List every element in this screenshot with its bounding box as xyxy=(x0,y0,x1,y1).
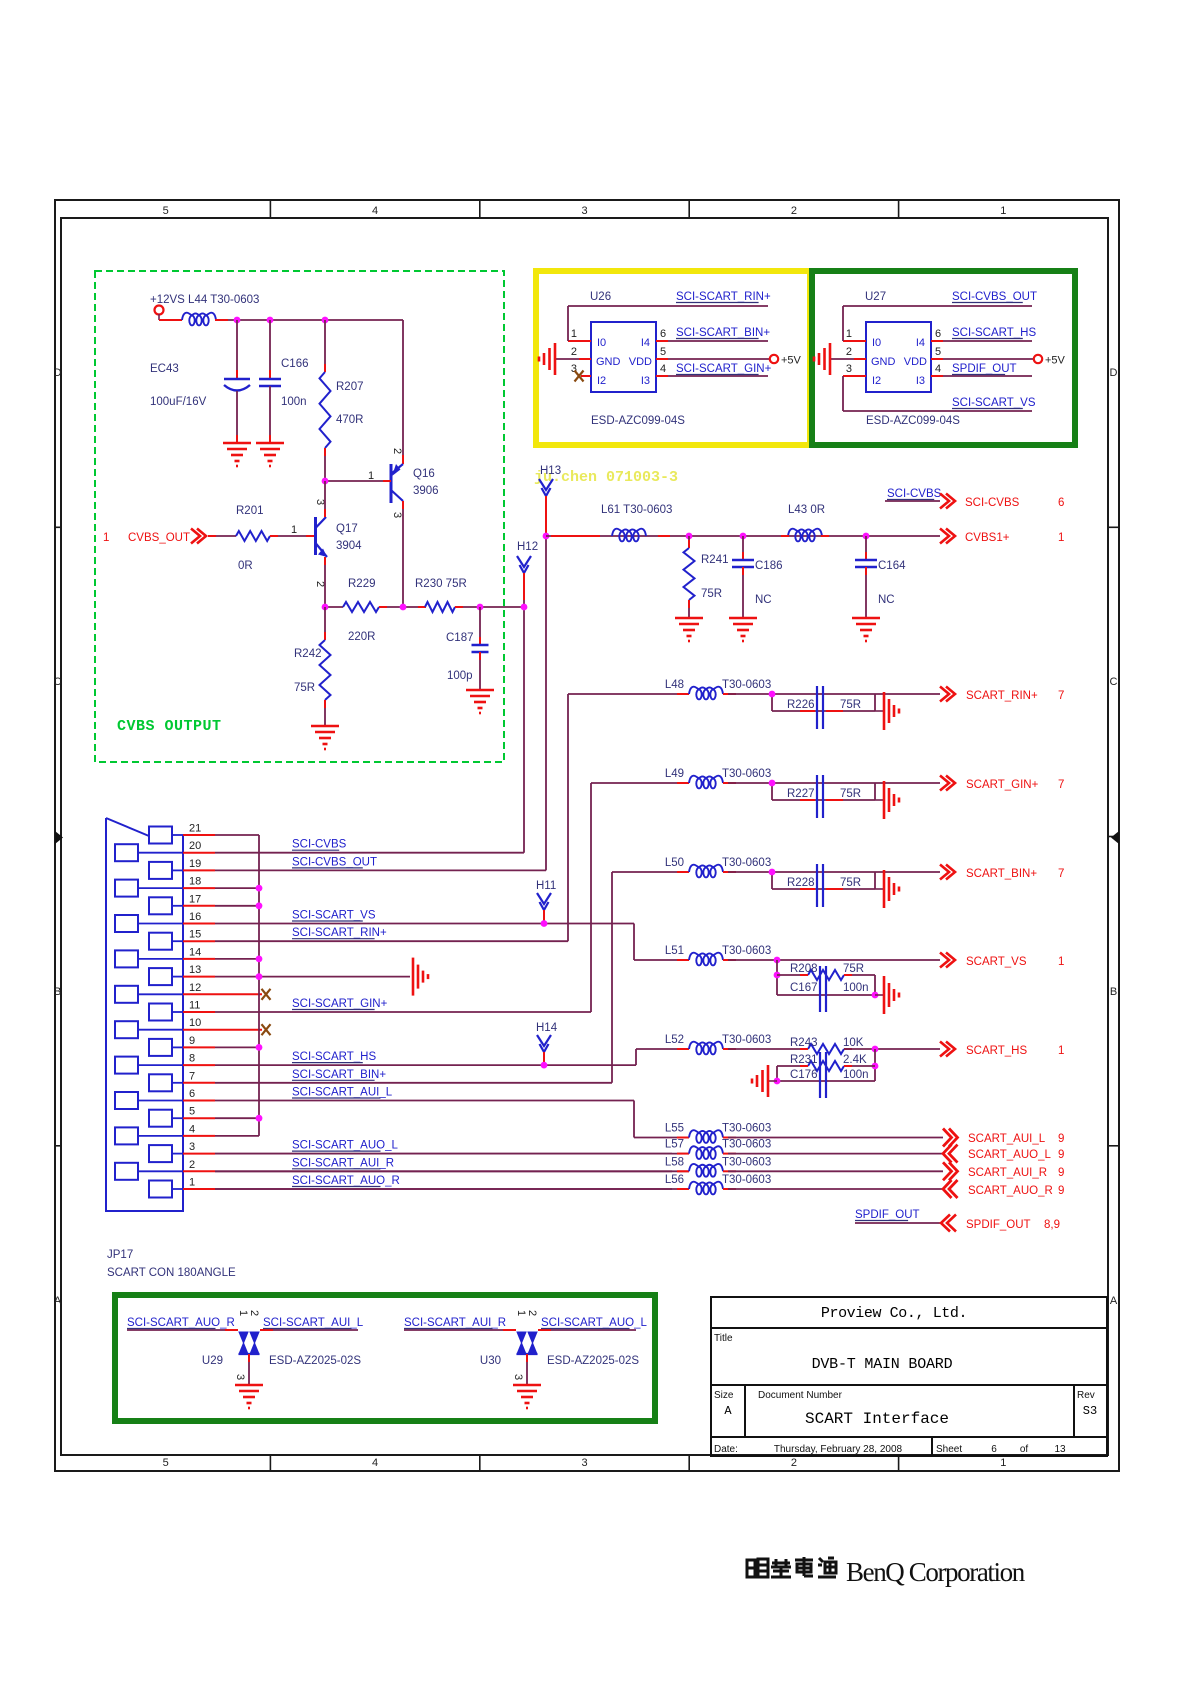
wire L55 row lead-in xyxy=(634,1137,689,1139)
wire L49 row lead-in xyxy=(591,782,689,784)
svg-text:100uF/16V: 100uF/16V xyxy=(150,396,207,408)
output port SCART_GIN+ xyxy=(940,776,955,791)
svg-text:3: 3 xyxy=(189,1141,195,1153)
svg-text:SCART_AUO_L: SCART_AUO_L xyxy=(968,1149,1051,1161)
svg-text:+5V: +5V xyxy=(781,355,802,367)
svg-text:75R: 75R xyxy=(843,963,864,975)
svg-text:3: 3 xyxy=(234,1374,246,1380)
svg-text:SCI-SCART_AUO_R: SCI-SCART_AUO_R xyxy=(292,1175,400,1187)
wire SCI-SCART_AUI_R xyxy=(404,1329,516,1331)
svg-text:L43 0R: L43 0R xyxy=(788,504,825,516)
svg-text:C167: C167 xyxy=(790,982,818,994)
svg-text:6: 6 xyxy=(991,1444,997,1455)
resistor R208 75R xyxy=(776,960,778,995)
svg-text:75R: 75R xyxy=(840,877,861,889)
svg-text:T30-0603: T30-0603 xyxy=(722,857,771,869)
svg-text:S3: S3 xyxy=(1083,1404,1097,1418)
ground at R226 network xyxy=(875,710,884,712)
output port SCART_AUO_L xyxy=(943,1145,958,1163)
svg-text:3906: 3906 xyxy=(413,485,439,497)
capacitor EC43 100uF/16V xyxy=(236,320,238,378)
green highlight box U27 xyxy=(812,271,1075,445)
wire SCI-SCART_AUO_R xyxy=(127,1329,238,1331)
resistor R226 75R network xyxy=(771,694,773,711)
svg-text:U30: U30 xyxy=(480,1355,501,1367)
svg-text:L49: L49 xyxy=(665,768,684,780)
node L61-R241 xyxy=(686,533,693,540)
output port SCART_HS xyxy=(940,1042,955,1057)
frame column/row ticks xyxy=(55,200,1119,1471)
svg-text:SCI-SCART_RIN+: SCI-SCART_RIN+ xyxy=(292,927,387,939)
svg-text:SCI-CVBS: SCI-CVBS xyxy=(887,488,942,500)
diode U30 ESD-AZ2025-02S xyxy=(517,1332,526,1354)
wire L51 row lead-in xyxy=(634,959,689,961)
wire L57 row to port xyxy=(728,1153,943,1155)
wire SCI-SCART_AUI_L xyxy=(260,1329,358,1331)
connector JP17 pin 14 box xyxy=(115,950,138,967)
svg-text:C: C xyxy=(54,676,62,688)
ground at L52 network xyxy=(768,1080,777,1082)
connector JP17 pin 7 box xyxy=(149,1074,172,1091)
connector JP17 pin 20 stub xyxy=(183,852,215,854)
wire L50 row lead-in xyxy=(612,871,689,873)
wire pin17 to ground bus xyxy=(215,905,259,907)
yellow highlight box U26 xyxy=(536,271,810,445)
svg-text:4: 4 xyxy=(372,1457,378,1469)
node rail-R207 xyxy=(322,317,329,324)
ground below C186 xyxy=(729,618,757,641)
U26 pin 3 no-connect xyxy=(581,375,591,377)
svg-text:SCI-SCART_VS: SCI-SCART_VS xyxy=(292,910,376,922)
wire L57 row lead-in xyxy=(215,1153,689,1155)
node H11 on pin16 wire xyxy=(541,920,548,927)
connector JP17 pin 5 box xyxy=(149,1110,172,1127)
U27 pin 6 wire SCI-SCART_HS xyxy=(931,340,943,342)
svg-text:6: 6 xyxy=(189,1088,195,1100)
svg-text:1: 1 xyxy=(571,328,577,340)
resistor R243 10K xyxy=(808,1044,844,1054)
svg-text:L57: L57 xyxy=(665,1139,684,1151)
svg-text:12: 12 xyxy=(189,982,201,994)
wire pin16 drop to L51 row xyxy=(633,924,635,961)
node C176-ground xyxy=(774,1078,781,1085)
transistor Q17 3904 NPN xyxy=(314,517,317,555)
svg-text:Proview Co., Ltd.: Proview Co., Ltd. xyxy=(821,1305,967,1322)
svg-text:3: 3 xyxy=(581,1457,587,1469)
svg-text:2: 2 xyxy=(526,1310,538,1316)
wire pin7 riser to L50 row xyxy=(611,872,613,1083)
svg-text:T30-0603: T30-0603 xyxy=(722,1156,771,1168)
wire pin18 to ground bus xyxy=(215,887,259,889)
wire L50 row to port xyxy=(728,871,940,873)
svg-text:R226: R226 xyxy=(787,699,815,711)
svg-text:GND: GND xyxy=(596,356,621,368)
svg-text:5: 5 xyxy=(660,346,666,358)
svg-text:6: 6 xyxy=(935,328,941,340)
svg-text:7: 7 xyxy=(1058,779,1064,791)
svg-text:3: 3 xyxy=(581,205,587,217)
svg-text:9: 9 xyxy=(1058,1167,1064,1179)
ground below R241 xyxy=(675,618,703,641)
wire L56 row lead-in xyxy=(215,1188,689,1190)
resistor R229 220R xyxy=(343,602,379,612)
svg-text:R242: R242 xyxy=(294,648,322,660)
node R228 tap xyxy=(769,869,776,876)
wire R208-C167 right side xyxy=(874,975,876,995)
svg-text:3: 3 xyxy=(846,363,852,375)
svg-text:SCI-SCART_HS: SCI-SCART_HS xyxy=(952,327,1036,339)
wire Q17 emitter xyxy=(324,557,326,607)
svg-text:SPDIF_OUT: SPDIF_OUT xyxy=(952,363,1017,375)
svg-text:R207: R207 xyxy=(336,381,364,393)
green highlight box U29 U30 xyxy=(115,1295,655,1421)
wire pin19 SCI-CVBS_OUT xyxy=(215,869,546,871)
svg-text:9: 9 xyxy=(1058,1133,1064,1145)
wire pin7 SCI-SCART_BIN+ xyxy=(215,1082,612,1084)
wire pin9 to ground bus xyxy=(215,1046,259,1048)
svg-text:C164: C164 xyxy=(878,560,906,572)
svg-text:R231: R231 xyxy=(790,1054,818,1066)
svg-text:17: 17 xyxy=(189,893,201,905)
capacitor C164 NC xyxy=(865,536,867,560)
U27 pin 3 wire to SCI-SCART_VS xyxy=(843,375,866,377)
svg-text:L50: L50 xyxy=(665,857,684,869)
wire pin5 to ground bus xyxy=(215,1117,259,1119)
wire L52 row mid xyxy=(728,1048,808,1050)
ground at R228 network xyxy=(875,888,884,890)
svg-text:SPDIF_OUT: SPDIF_OUT xyxy=(966,1219,1031,1231)
svg-text:Q17: Q17 xyxy=(336,523,358,535)
svg-text:ESD-AZ2025-02S: ESD-AZ2025-02S xyxy=(269,1355,361,1367)
svg-text:B: B xyxy=(54,986,61,998)
wire L56 row to port xyxy=(728,1188,943,1190)
output port SCART_AUO_R xyxy=(943,1180,958,1198)
wire L58 row to port xyxy=(728,1170,943,1172)
connector JP17 pin 1 stub xyxy=(183,1188,215,1190)
svg-text:U27: U27 xyxy=(865,291,886,303)
ground at R227 network xyxy=(875,799,884,801)
connector JP17 body outline xyxy=(106,818,183,1211)
svg-text:1: 1 xyxy=(189,1177,195,1189)
resistor R207 470R xyxy=(324,320,326,372)
svg-text:JP17: JP17 xyxy=(107,1249,133,1261)
inductor L58 T30-0603 xyxy=(689,1164,723,1177)
svg-text:B: B xyxy=(1110,986,1117,998)
svg-text:100n: 100n xyxy=(843,982,869,994)
svg-text:D: D xyxy=(54,367,62,379)
svg-text:Q16: Q16 xyxy=(413,468,435,480)
svg-text:D: D xyxy=(1110,367,1118,379)
connector JP17 pin 6 stub xyxy=(183,1100,215,1102)
capacitor in R227 network xyxy=(817,775,823,818)
ground below U30 xyxy=(513,1385,541,1408)
node bus pin 14 xyxy=(256,956,263,963)
input port SCART_AUI_L xyxy=(943,1129,958,1147)
svg-text:T30-0603: T30-0603 xyxy=(722,679,771,691)
svg-text:H14: H14 xyxy=(536,1022,558,1034)
capacitor C187 100p xyxy=(479,607,481,645)
svg-text:L51: L51 xyxy=(665,945,684,957)
node R226 tap xyxy=(769,691,776,698)
svg-text:I0: I0 xyxy=(872,337,881,349)
svg-text:3: 3 xyxy=(512,1374,524,1380)
connector JP17 pin 19 box xyxy=(149,862,172,879)
connector JP17 pin 1 box xyxy=(149,1181,172,1198)
svg-text:75R: 75R xyxy=(840,699,861,711)
svg-text:18: 18 xyxy=(189,876,201,888)
svg-text:SCI-CVBS_OUT: SCI-CVBS_OUT xyxy=(292,856,377,868)
connector JP17 pin 11 box xyxy=(149,1004,172,1021)
wire Q16 base xyxy=(325,480,383,482)
svg-text:VDD: VDD xyxy=(904,356,927,368)
svg-text:1: 1 xyxy=(103,532,109,544)
output port SCI-CVBS xyxy=(940,494,955,509)
node Q16 base junction xyxy=(322,478,329,485)
wire pin1 SCI-SCART_AUO_R xyxy=(215,1188,672,1190)
resistor R228 75R network xyxy=(771,872,773,889)
svg-text:C187: C187 xyxy=(446,632,474,644)
svg-text:SCI-CVBS: SCI-CVBS xyxy=(292,839,347,851)
svg-text:1: 1 xyxy=(1058,956,1064,968)
svg-text:19: 19 xyxy=(189,858,201,870)
svg-text:SCI-SCART_AUO_L: SCI-SCART_AUO_L xyxy=(292,1140,398,1152)
svg-text:220R: 220R xyxy=(348,631,376,643)
U26 pin 2 GND wire xyxy=(579,358,591,360)
svg-text:BenQ Corporation: BenQ Corporation xyxy=(846,1557,1026,1587)
svg-text:1: 1 xyxy=(1058,1045,1064,1057)
U27 pin 2 GND wire xyxy=(854,358,866,360)
wire pin16 SCI-SCART_VS xyxy=(215,923,634,925)
svg-text:8,9: 8,9 xyxy=(1044,1219,1060,1231)
svg-text:5: 5 xyxy=(163,205,169,217)
svg-text:H12: H12 xyxy=(517,541,538,553)
svg-text:CVBS OUTPUT: CVBS OUTPUT xyxy=(117,718,222,735)
wire pin8 SCI-SCART_HS xyxy=(215,1064,636,1066)
inductor L43 0R xyxy=(788,529,822,542)
diode U29 ESD-AZ2025-02S xyxy=(239,1332,248,1354)
U26 pin 6 wire SCI-SCART_BIN+ xyxy=(656,340,668,342)
svg-text:3904: 3904 xyxy=(336,540,362,552)
capacitor C166 100n xyxy=(269,320,271,378)
svg-text:R229: R229 xyxy=(348,578,376,590)
node R243 output xyxy=(872,1046,879,1053)
svg-text:7: 7 xyxy=(1058,690,1064,702)
wire pin11 riser to L49 row xyxy=(590,783,592,1012)
connector JP17 pin 17 stub xyxy=(183,905,215,907)
connector JP17 pin 12 box xyxy=(115,986,138,1003)
connector JP17 pin 9 box xyxy=(149,1039,172,1056)
connector JP17 pin 10 stub xyxy=(183,1029,215,1031)
wire CVBS1+ row xyxy=(546,535,940,537)
svg-text:3: 3 xyxy=(391,512,403,518)
svg-text:SCART_HS: SCART_HS xyxy=(966,1045,1027,1057)
connector JP17 pin 19 stub xyxy=(183,869,215,871)
capacitor C176 100n xyxy=(777,1080,875,1082)
svg-text:T30-0603: T30-0603 xyxy=(722,768,771,780)
node bus pin 17 xyxy=(256,902,263,909)
wire pin14 to ground bus xyxy=(215,958,259,960)
node rail-EC43 xyxy=(234,317,241,324)
connector JP17 pin 14 stub xyxy=(183,958,215,960)
svg-text:R241: R241 xyxy=(701,554,729,566)
resistor R242 75R xyxy=(324,607,326,640)
power +5V at U27 xyxy=(1034,355,1042,363)
node C167-ground xyxy=(872,992,879,999)
wire SPDIF_OUT stub xyxy=(855,1222,941,1224)
frame outer border xyxy=(55,200,1119,1471)
transistor Q16 3906 PNP xyxy=(390,464,393,503)
connector JP17 pin 4 stub xyxy=(183,1135,215,1137)
svg-text:1: 1 xyxy=(846,328,852,340)
svg-text:EC43: EC43 xyxy=(150,363,179,375)
svg-text:15: 15 xyxy=(189,929,201,941)
svg-text:10K: 10K xyxy=(843,1037,864,1049)
capacitor in R226 network xyxy=(817,686,823,729)
U27 pin 4 wire SPDIF_OUT xyxy=(931,375,943,377)
svg-text:1: 1 xyxy=(1000,1457,1006,1469)
ground below C164 xyxy=(852,618,880,641)
wire R231-C176 left side xyxy=(776,1066,778,1081)
svg-text:I4: I4 xyxy=(916,337,925,349)
svg-text:13: 13 xyxy=(189,964,201,976)
connector JP17 pin 17 box xyxy=(149,897,172,914)
svg-text:9: 9 xyxy=(1058,1185,1064,1197)
inductor L57 T30-0603 xyxy=(689,1146,723,1159)
wire L58 row lead-in xyxy=(215,1170,689,1172)
svg-text:SCI-SCART_VS: SCI-SCART_VS xyxy=(952,397,1036,409)
inductor L51 T30-0603 xyxy=(689,953,723,966)
svg-text:SCI-SCART_GIN+: SCI-SCART_GIN+ xyxy=(292,998,388,1010)
svg-text:SCART_AUI_R: SCART_AUI_R xyxy=(968,1167,1047,1179)
svg-text:SCI-SCART_HS: SCI-SCART_HS xyxy=(292,1051,376,1063)
svg-text:U26: U26 xyxy=(590,291,611,303)
wire pin20 SCI-CVBS xyxy=(215,852,524,854)
svg-text:of: of xyxy=(1020,1444,1029,1455)
svg-text:Thursday, February 28, 2008: Thursday, February 28, 2008 xyxy=(774,1444,903,1455)
capacitor in R228 network xyxy=(817,864,823,907)
svg-text:SCART_BIN+: SCART_BIN+ xyxy=(966,868,1037,880)
svg-text:L48: L48 xyxy=(665,679,684,691)
node emitter-R229-R242 xyxy=(325,606,343,608)
svg-text:Date:: Date: xyxy=(714,1444,738,1455)
wire SCI-CVBS stub xyxy=(885,500,940,502)
inductor L61 xyxy=(612,529,646,542)
svg-text:C166: C166 xyxy=(281,358,309,370)
node L43-C164 xyxy=(863,533,870,540)
connector JP17 pin 2 box xyxy=(115,1163,138,1180)
connector JP17 pin 13 box xyxy=(149,968,172,985)
svg-text:SCART_RIN+: SCART_RIN+ xyxy=(966,690,1038,702)
svg-text:T30-0603: T30-0603 xyxy=(722,1034,771,1046)
wire R201 to Q17 base xyxy=(270,535,315,537)
wire pin13 to ground xyxy=(215,976,410,978)
svg-text:13: 13 xyxy=(1054,1444,1066,1455)
svg-text:2: 2 xyxy=(248,1310,260,1316)
svg-text:ESD-AZC099-04S: ESD-AZC099-04S xyxy=(591,415,685,427)
node R227 tap xyxy=(769,780,776,787)
svg-text:CVBS1+: CVBS1+ xyxy=(965,532,1010,544)
svg-text:5: 5 xyxy=(163,1457,169,1469)
resistor R231 2.4K xyxy=(874,1049,876,1081)
svg-text:A: A xyxy=(54,1295,62,1307)
svg-text:2: 2 xyxy=(391,448,403,454)
ground at pin13 xyxy=(413,958,428,996)
svg-text:R208: R208 xyxy=(790,963,818,975)
svg-text:7: 7 xyxy=(1058,868,1064,880)
svg-text:T30-0603: T30-0603 xyxy=(722,945,771,957)
svg-text:T30-0603: T30-0603 xyxy=(722,1123,771,1135)
svg-text:100n: 100n xyxy=(843,1069,869,1081)
svg-text:SCI-SCART_AUI_R: SCI-SCART_AUI_R xyxy=(292,1157,394,1169)
svg-text:4: 4 xyxy=(660,363,666,375)
svg-text:ESD-AZC099-04S: ESD-AZC099-04S xyxy=(866,415,960,427)
svg-text:SCART_GIN+: SCART_GIN+ xyxy=(966,779,1039,791)
svg-text:0R: 0R xyxy=(238,560,253,572)
svg-text:Document Number: Document Number xyxy=(758,1390,843,1401)
svg-text:SCART Interface: SCART Interface xyxy=(805,1410,949,1428)
wire pin15 riser to L48 row xyxy=(567,694,569,941)
svg-text:ESD-AZ2025-02S: ESD-AZ2025-02S xyxy=(547,1355,639,1367)
CVBS OUTPUT region dashed box xyxy=(95,271,504,762)
svg-text:Sheet: Sheet xyxy=(936,1444,962,1455)
svg-text:4: 4 xyxy=(935,363,941,375)
node bus pin 5 xyxy=(256,1115,263,1122)
svg-text:75R: 75R xyxy=(840,788,861,800)
svg-text:21: 21 xyxy=(189,823,201,835)
wire CVBS_OUT to R201 xyxy=(208,535,236,537)
svg-text:5: 5 xyxy=(935,346,941,358)
connector JP17 pin 9 stub xyxy=(183,1046,215,1048)
wire pin11 SCI-SCART_GIN+ xyxy=(215,1011,591,1013)
inductor L52 T30-0603 xyxy=(689,1042,723,1055)
resistor R201 0R xyxy=(236,531,270,541)
svg-text:I3: I3 xyxy=(916,375,925,387)
connector JP17 pin 8 box xyxy=(115,1057,138,1074)
svg-text:SCI-SCART_AUI_R: SCI-SCART_AUI_R xyxy=(404,1317,506,1329)
wire rail to Q16 collector xyxy=(402,320,404,464)
svg-text:100p: 100p xyxy=(447,670,473,682)
svg-text:2: 2 xyxy=(791,205,797,217)
ground below U29 xyxy=(235,1385,263,1408)
BenQ logo chinese characters xyxy=(747,1557,836,1577)
power terminal +12VS xyxy=(155,306,164,315)
svg-text:U29: U29 xyxy=(202,1355,223,1367)
svg-text:R201: R201 xyxy=(236,505,264,517)
svg-text:NC: NC xyxy=(878,594,895,606)
svg-text:SCART_AUI_L: SCART_AUI_L xyxy=(968,1133,1046,1145)
svg-text:16: 16 xyxy=(189,911,201,923)
connector JP17 pin 20 box xyxy=(115,844,138,861)
svg-text:H11: H11 xyxy=(536,880,556,892)
capacitor C167 100n xyxy=(777,994,875,996)
wire L55 row to port xyxy=(728,1137,943,1139)
connector JP17 pin 21 stub xyxy=(183,834,215,836)
svg-text:6: 6 xyxy=(660,328,666,340)
svg-text:1: 1 xyxy=(1000,205,1006,217)
svg-text:CVBS_OUT: CVBS_OUT xyxy=(128,532,190,544)
svg-text:75R: 75R xyxy=(294,682,315,694)
svg-text:T30-0603: T30-0603 xyxy=(722,1139,771,1151)
svg-text:2: 2 xyxy=(791,1457,797,1469)
svg-text:100n: 100n xyxy=(281,396,307,408)
wire ground bus vertical xyxy=(258,835,260,1136)
wire U29 pin 3 xyxy=(248,1354,250,1385)
svg-text:2: 2 xyxy=(189,1159,195,1171)
inductor L56 T30-0603 xyxy=(689,1182,723,1195)
svg-text:H13: H13 xyxy=(540,465,561,477)
svg-text:VDD: VDD xyxy=(629,356,652,368)
node bus pin 9 xyxy=(256,1044,263,1051)
